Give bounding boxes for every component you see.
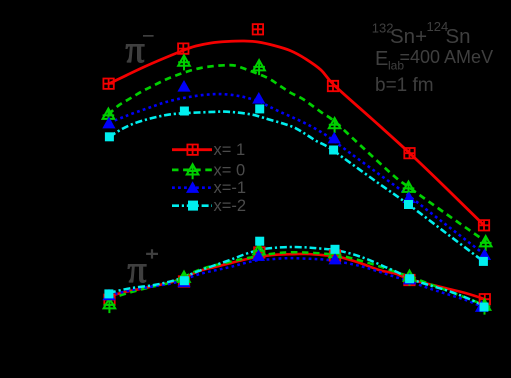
legend xyxy=(172,145,212,211)
curve pi-plus x=1 (red solid) xyxy=(109,254,485,299)
curve pi-plus x=0 (green dashed) xyxy=(109,252,485,305)
markers x=-1 blue filled triangles xyxy=(102,117,115,129)
svg-text:π: π xyxy=(128,249,147,291)
markers x=0 green star triangles xyxy=(103,109,115,124)
svg-text:x=-1: x=-1 xyxy=(214,179,247,197)
markers x=1 red open squares xyxy=(103,79,113,89)
curve pi-minus x=-2 (cyan dash-dot) xyxy=(109,112,483,262)
curve pi-minus x=1 (red solid) xyxy=(109,41,485,225)
curve pi-minus x=-1 (blue dotted) xyxy=(109,94,485,254)
svg-text:x= 0: x= 0 xyxy=(214,161,246,179)
svg-text:Sn+: Sn+ xyxy=(390,25,427,48)
svg-text:E: E xyxy=(375,48,388,70)
svg-text:x=-2: x=-2 xyxy=(214,197,247,215)
svg-text:b=1 fm: b=1 fm xyxy=(375,75,434,96)
svg-text:=400 AMeV: =400 AMeV xyxy=(400,47,494,67)
svg-text:x= 1: x= 1 xyxy=(214,141,246,159)
svg-text:Sn: Sn xyxy=(446,25,471,48)
curve pi-minus x=0 (green dashed) xyxy=(108,65,485,241)
markers x=-2 cyan filled squares xyxy=(105,132,114,141)
curve pi-plus x=-2 (cyan dash-dot) xyxy=(109,247,485,307)
svg-text:π: π xyxy=(126,29,145,71)
curve pi-plus x=-1 (blue dotted) xyxy=(109,258,481,306)
